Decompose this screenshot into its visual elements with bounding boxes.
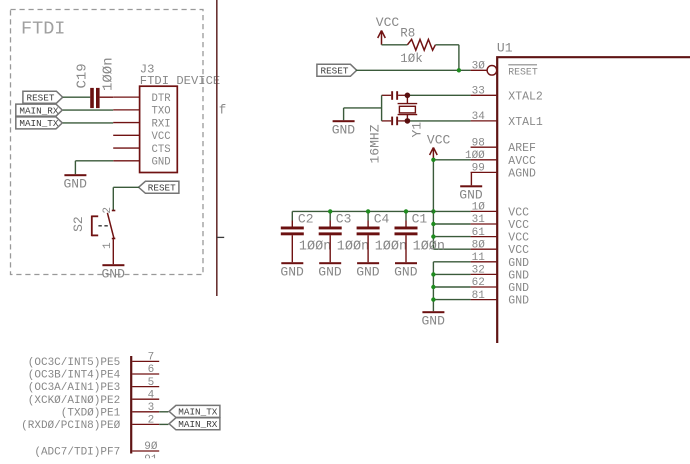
junction C3 [328,209,332,213]
svg-text:C19: C19 [75,63,91,88]
svg-text:CTS: CTS [152,144,171,156]
svg-text:RESET: RESET [508,66,538,77]
capacitor at XTAL1 [382,117,408,126]
svg-text:(RXDØ/PCIN8)PEØ: (RXDØ/PCIN8)PEØ [21,420,120,432]
IC port E/F box edge (cut off) [130,356,132,454]
svg-text:GND: GND [102,266,126,281]
svg-text:DTR: DTR [152,93,172,105]
svg-text:2: 2 [102,207,114,214]
GND bus wires to U1 [433,262,470,311]
svg-text:1: 1 [102,242,114,249]
svg-text:XTAL2: XTAL2 [508,90,543,103]
svg-text:C2: C2 [298,211,314,226]
capacitor at XTAL2 [382,91,408,100]
partial component edge (cut off) [217,0,224,296]
capacitor C3 [319,211,342,262]
svg-text:(XCKØ/AINØ)PE2: (XCKØ/AINØ)PE2 [28,395,120,407]
ground below C3 [319,262,341,264]
J3 pin VCC [113,131,170,143]
svg-text:MAIN_TX: MAIN_TX [178,407,217,418]
svg-text:62: 62 [472,277,485,289]
connector J3 box [140,86,178,172]
svg-text:11: 11 [472,252,486,264]
svg-text:16MHZ: 16MHZ [367,124,382,163]
svg-text:98: 98 [472,137,485,149]
svg-text:2: 2 [148,415,155,427]
capacitor C1 [395,211,418,262]
svg-text:Y1: Y1 [409,122,424,138]
pin 2 (RXD0/PCIN8)PE0 [21,415,159,432]
switch S2 [92,210,116,265]
U1 pin 62 GND [471,277,530,295]
svg-text:34: 34 [472,111,486,123]
svg-text:99: 99 [472,163,485,175]
ground of GND bus [422,311,444,313]
svg-text:RESET: RESET [27,92,55,103]
svg-text:32: 32 [472,265,485,277]
IC U1 box [497,57,690,343]
svg-text:33: 33 [472,86,485,98]
svg-text:GND: GND [394,264,418,279]
ground below J3 [64,174,86,176]
svg-text:1ØØn: 1ØØn [413,240,445,255]
net label MAIN_TX [16,117,63,129]
svg-text:AREF: AREF [508,142,536,155]
net label RESET (to FTDI DTR) [23,91,63,103]
svg-text:MAIN_RX: MAIN_RX [178,419,217,430]
wire R8 to RESET net [435,45,459,71]
svg-text:RXI: RXI [152,118,171,130]
svg-text:GND: GND [152,157,171,169]
J3 pin RXI [113,118,170,130]
svg-text:GND: GND [318,264,342,279]
wire MAIN_TX to J3 RXI pin [63,122,113,124]
svg-text:VCC: VCC [508,219,529,232]
svg-text:VCC: VCC [508,244,529,257]
junction XTAL1 node [405,118,411,124]
svg-text:61: 61 [472,227,486,239]
svg-text:GND: GND [508,269,529,282]
wire joining crystal caps [381,95,383,121]
svg-text:GND: GND [64,176,88,191]
resistor R8 [407,39,435,50]
svg-text:VCC: VCC [508,206,529,219]
svg-text:5: 5 [148,377,155,389]
crystal Y1 [398,95,418,121]
net label MAIN_RX [16,104,63,116]
svg-text:7: 7 [148,352,155,364]
svg-text:9Ø: 9Ø [144,441,158,453]
svg-text:1ØØn: 1ØØn [299,240,331,255]
svg-text:TXO: TXO [152,106,171,118]
svg-text:VCC: VCC [508,232,529,245]
svg-text:3: 3 [148,402,155,414]
wire VCC to AVCC pin 100 [433,159,470,161]
svg-text:(ADC7/TDI)PF7: (ADC7/TDI)PF7 [34,447,120,459]
svg-text:GND: GND [280,264,304,279]
svg-text:RESET: RESET [321,66,349,77]
svg-text:S2: S2 [71,216,86,232]
svg-text:1ØØn: 1ØØn [337,240,369,255]
wire to pin 80 [433,248,470,250]
U1 pin 100 AVCC [465,150,536,168]
wire XTAL1 net [407,120,470,122]
svg-text:GND: GND [356,264,380,279]
svg-text:FTDI DEVICE: FTDI DEVICE [140,74,220,88]
capacitor C2 [281,211,304,262]
svg-text:GND: GND [508,257,529,270]
svg-text:f: f [219,104,227,118]
svg-text:1Ø: 1Ø [472,202,486,214]
junction pin 31 [431,222,435,226]
U1 pin 10 VCC [471,202,530,220]
wire RESET label to S2 pin 2 [113,187,139,210]
svg-text:GND: GND [508,282,529,295]
U1 pin 81 GND [471,290,530,308]
svg-text:(OC3C/INT5)PE5: (OC3C/INT5)PE5 [28,357,120,369]
wire to pin 61 [433,236,470,238]
wire to pin 10 [433,210,470,212]
svg-text:AVCC: AVCC [508,155,536,168]
svg-text:GND: GND [459,188,483,203]
J3 pin CTS [113,144,170,156]
svg-text:1ØØn: 1ØØn [101,57,117,91]
junction pin 61 [431,234,435,238]
wire MAIN_RX to J3 TXO pin [63,109,113,111]
pin 90 (ADC7/TDI)PF7 [34,441,159,458]
U1 pin 99 AGND [471,163,536,181]
svg-text:91: 91 [144,454,158,464]
net label MAIN_TX (port E) [169,405,220,417]
svg-text:XTAL1: XTAL1 [508,116,543,129]
svg-text:1ØØn: 1ØØn [375,240,407,255]
U1 pin 33 XTAL2 [471,86,543,104]
pin 5 (OC3A/AIN1)PE3 [28,377,159,394]
capacitor C4 [357,211,380,262]
svg-text:31: 31 [472,214,486,226]
U1 pin 61 VCC [471,227,530,245]
junction pin 32 [431,272,435,276]
pin 91 clipped at image bottom [144,454,158,464]
J3 pin GND [113,157,170,169]
net label RESET (to U1) [317,64,357,76]
wire XTAL2 net [407,94,470,96]
svg-text:VCC: VCC [152,131,171,143]
wire RESET label to C19 [63,96,90,98]
wire J3 GND pin to ground [75,161,113,174]
junction pin 62 [431,285,435,289]
capacitor C19 [90,88,99,108]
junction pin 81 [431,297,435,301]
junction XTAL2 node [405,93,411,99]
U1 pin 80 VCC [471,239,530,257]
svg-text:C3: C3 [336,211,352,226]
U1 pin 98 AREF [471,137,536,155]
svg-text:GND: GND [332,122,356,137]
svg-text:GND: GND [508,295,529,308]
power VCC (U1 supply) [427,133,451,160]
svg-text:(OC3A/AIN1)PE3: (OC3A/AIN1)PE3 [28,382,120,394]
ground at crystal [333,120,355,122]
svg-text:MAIN_RX: MAIN_RX [19,105,58,116]
U1 pin 11 GND [471,252,530,270]
svg-text:RESET: RESET [148,183,176,194]
ground below C4 [357,262,379,264]
junction RESET/R8 [457,68,461,72]
net label MAIN_RX (port E) [169,418,220,430]
svg-text:U1: U1 [497,41,513,56]
net label RESET (to switch S2) [139,181,179,193]
VCC bus vertical [432,160,434,249]
svg-text:(OC3B/INT4)PE4: (OC3B/INT4)PE4 [28,370,121,382]
J3 pin TXO [113,106,170,118]
svg-text:8Ø: 8Ø [472,239,486,251]
svg-text:VCC: VCC [427,133,451,148]
svg-text:GND: GND [422,313,446,328]
ground at AGND pin 99 [470,172,472,185]
svg-text:FTDI: FTDI [21,18,65,39]
U1 pin 30 RESET [471,61,538,78]
wire caps to ground [344,108,382,120]
junction C1 [404,209,408,213]
svg-text:MAIN_TX: MAIN_TX [19,118,58,129]
FTDI section dashed frame [11,10,204,275]
svg-text:(TXDØ)PE1: (TXDØ)PE1 [61,407,121,419]
junction VCC arrow [431,158,435,162]
svg-text:VCC: VCC [376,15,400,30]
wire to pin 31 [433,223,470,225]
svg-text:AGND: AGND [508,167,536,180]
ground below C2 [281,262,303,264]
svg-text:4: 4 [148,389,155,401]
junction C4 [366,209,370,213]
pin 4 (XCK0/AIN0)PE2 [28,389,159,406]
svg-text:C4: C4 [374,211,390,226]
pin 6 (OC3B/INT4)PE4 [28,364,159,381]
U1 pin 31 VCC [471,214,530,232]
J3 pin DTR [113,93,171,105]
ground below S2 [102,264,124,266]
pin 3 (TXD0)PE1 [61,402,159,419]
pin 7 (OC3C/INT5)PE5 [28,352,159,369]
U1 pin 32 GND [471,265,530,283]
wire RESET label to U1 pin 30 [356,69,471,71]
ground below C1 [395,262,417,264]
power VCC (R8 pull-up) [376,15,400,45]
wire VCC to R8 [382,44,408,46]
svg-text:81: 81 [472,290,486,302]
svg-text:1Øk: 1Øk [400,52,423,66]
svg-text:6: 6 [148,364,155,376]
svg-text:C1: C1 [412,211,428,226]
svg-text:3Ø: 3Ø [472,61,486,73]
svg-text:R8: R8 [400,27,415,41]
wire VCC to decoupling caps [292,210,433,212]
junction pin 10 [431,209,435,213]
wire C19 to J3 DTR pin [100,96,114,98]
wire pin 3 to MAIN_TX [159,411,168,413]
wire pin 2 to MAIN_RX [159,423,168,425]
U1 pin 34 XTAL1 [471,111,543,129]
